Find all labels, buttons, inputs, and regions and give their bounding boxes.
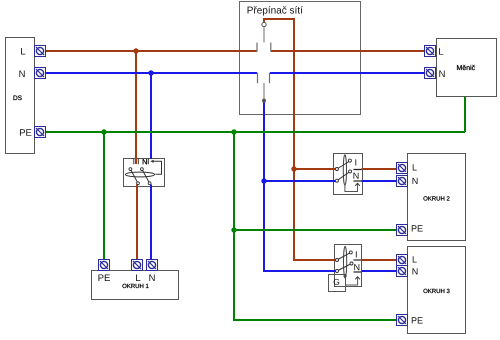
label OKRUH1 pin N	[149, 274, 154, 281]
terminal OKRUH3 L	[397, 255, 408, 266]
label OKRUH3 pin L	[413, 256, 417, 262]
wire brown: breaker Q3 to OKRUH 3 L	[362, 259, 398, 261]
label G	[334, 279, 340, 285]
relay K1: jaw tick of N pole	[147, 159, 149, 165]
breaker Q3: fixed stub N	[354, 271, 362, 273]
label Měnič pin N	[439, 70, 444, 77]
label OKRUH2 pin N	[412, 178, 417, 184]
wire green vertical: PE down to OKRUH 3 PE	[234, 132, 397, 320]
wire PE green: Měnič down drop	[464, 97, 466, 132]
breaker Q2: trip arrow up	[355, 183, 360, 186]
label OKRUH 2	[423, 196, 449, 200]
terminal OKRUH1 PE	[99, 260, 110, 271]
wire blue vertical: relay K1 down to OKRUH 1 N	[150, 185, 152, 262]
terminal DS N	[35, 68, 46, 79]
label OKRUH1 pin PE	[98, 274, 109, 281]
terminal OKRUH1 N	[147, 260, 158, 271]
wire green branch: to OKRUH 2 PE	[234, 229, 397, 231]
terminal OKRUH2 L	[397, 163, 408, 174]
wire brown: breaker Q2 to OKRUH 2 L	[362, 168, 398, 170]
switch pole L: right jaw tick	[270, 43, 272, 52]
terminal DS PE	[35, 127, 46, 138]
box G (generator interlock)	[329, 275, 346, 292]
node junction L/relay (brown dot)	[133, 48, 138, 53]
box relay K1	[124, 159, 165, 187]
box OKRUH 2	[408, 154, 466, 241]
breaker Q2: label I	[354, 159, 357, 165]
node junction brown branch to OKRUH 2 (dot)	[291, 166, 296, 171]
wire blue: breaker Q2 to OKRUH 2 N	[362, 180, 398, 182]
breaker Q2: actuator ellipse	[343, 155, 346, 185]
relay K1: blade 1	[130, 169, 138, 183]
label OKRUH 1	[122, 284, 148, 288]
terminal Měnič N	[425, 68, 436, 79]
breaker Q3: actuator down arrow into G	[343, 276, 347, 279]
label Přepínač sítí	[248, 6, 303, 15]
breaker Q2: fixed stub N	[354, 180, 362, 182]
breaker Q3: label I	[355, 251, 358, 257]
wire N blue: DS to switch contact	[46, 72, 257, 74]
wire PE green main: DS to Měnič drop	[46, 131, 465, 133]
wire L brown: DS to switch contact	[46, 50, 257, 52]
label OKRUH3 pin PE	[412, 317, 423, 323]
breaker Q3: actuator ellipse	[344, 246, 347, 277]
relay K1: actuator ellipse	[125, 172, 154, 177]
terminal OKRUH2 N	[397, 176, 408, 187]
wire L brown: switch contact to Měnič	[271, 50, 425, 52]
breaker Q3: blade pole N	[337, 264, 352, 272]
terminal OKRUH3 PE	[397, 315, 408, 326]
terminal OKRUH3 N	[397, 266, 408, 277]
wire blue vertical: N line down to relay K1	[150, 73, 152, 159]
wire brown: switch common up-over-down to breakers	[264, 19, 336, 260]
wire blue: breaker Q3 to OKRUH 3 N	[362, 270, 398, 272]
relay K1: jaw tick left of L wire	[133, 159, 135, 165]
wire brown vertical: L line down to relay K1	[135, 51, 137, 164]
switch pole N: pivot dot	[262, 99, 266, 103]
breaker Q2: blade pole I	[337, 161, 350, 169]
box Přepínač sítí (mains selector switch)	[240, 2, 361, 115]
switch pole N: right jaw tick	[269, 73, 271, 83]
label DS pin PE	[20, 129, 31, 136]
wire brown branch: to breaker Q2	[294, 168, 336, 170]
box OKRUH 1	[92, 271, 179, 300]
box breaker Q3	[335, 245, 362, 287]
label OKRUH2 pin L	[413, 164, 417, 170]
label DS	[14, 95, 22, 100]
label OKRUH 3	[423, 289, 449, 293]
label OKRUH3 pin N	[412, 268, 417, 274]
relay K1: actuator hook arrow	[152, 161, 162, 174]
breaker Q3: blade pole I	[337, 252, 351, 260]
switch pole L: pivot circle	[262, 22, 266, 26]
breaker Q2: fixed stub I	[354, 169, 362, 171]
breaker Q3: label N	[354, 264, 359, 270]
label Měnič pin L	[439, 48, 443, 55]
relay K1: jaw tick right of L wire	[137, 159, 139, 165]
wire blue: switch common down to breakers	[264, 102, 336, 271]
switch pole N: blade	[263, 83, 265, 99]
label OKRUH2 pin PE	[412, 225, 423, 231]
breaker Q2: blade pole N	[337, 171, 350, 180]
switch pole L: left jaw tick	[256, 43, 258, 52]
terminal Měnič L	[425, 46, 436, 57]
node junction N/relay (blue dot)	[148, 70, 153, 75]
node junction PE/OKRUH1 (green dot)	[101, 129, 106, 134]
terminal OKRUH1 L	[132, 260, 143, 271]
breaker Q2: actuator linkage	[345, 184, 358, 192]
breaker Q3: fixed stub I	[354, 259, 362, 261]
box breaker Q2	[334, 154, 363, 195]
breaker Q3: actuator linkage	[346, 277, 358, 285]
label DS pin L	[21, 48, 25, 55]
terminal DS L	[35, 46, 46, 57]
wire blue branch: to breaker Q2	[264, 180, 336, 182]
wire brown vertical: relay K1 down to OKRUH 1 L	[136, 185, 138, 262]
node junction blue branch to OKRUH 2 (dot)	[261, 178, 266, 183]
box DS (source)	[6, 38, 35, 154]
box Měnič (inverter)	[437, 39, 497, 97]
switch pole N: left jaw tick	[257, 73, 259, 83]
breaker Q2: label N	[353, 173, 358, 179]
wire green vertical: PE to OKRUH 1 PE	[103, 132, 105, 261]
label DS pin N	[19, 70, 24, 77]
label OKRUH1 pin L	[136, 274, 140, 281]
terminal OKRUH2 PE	[397, 225, 408, 236]
node junction PE branch OKRUH2 (green dot)	[231, 227, 236, 232]
node junction PE main/branch (green dot)	[231, 129, 236, 134]
relay K1: label N	[143, 159, 147, 164]
label Měnič	[457, 65, 475, 70]
switch pole L: blade	[263, 27, 265, 43]
relay K1: blade 2	[142, 169, 150, 183]
box OKRUH 3	[408, 247, 466, 334]
wire N blue: switch contact to Měnič	[270, 72, 425, 74]
breaker Q3: trip arrow up	[355, 277, 360, 280]
